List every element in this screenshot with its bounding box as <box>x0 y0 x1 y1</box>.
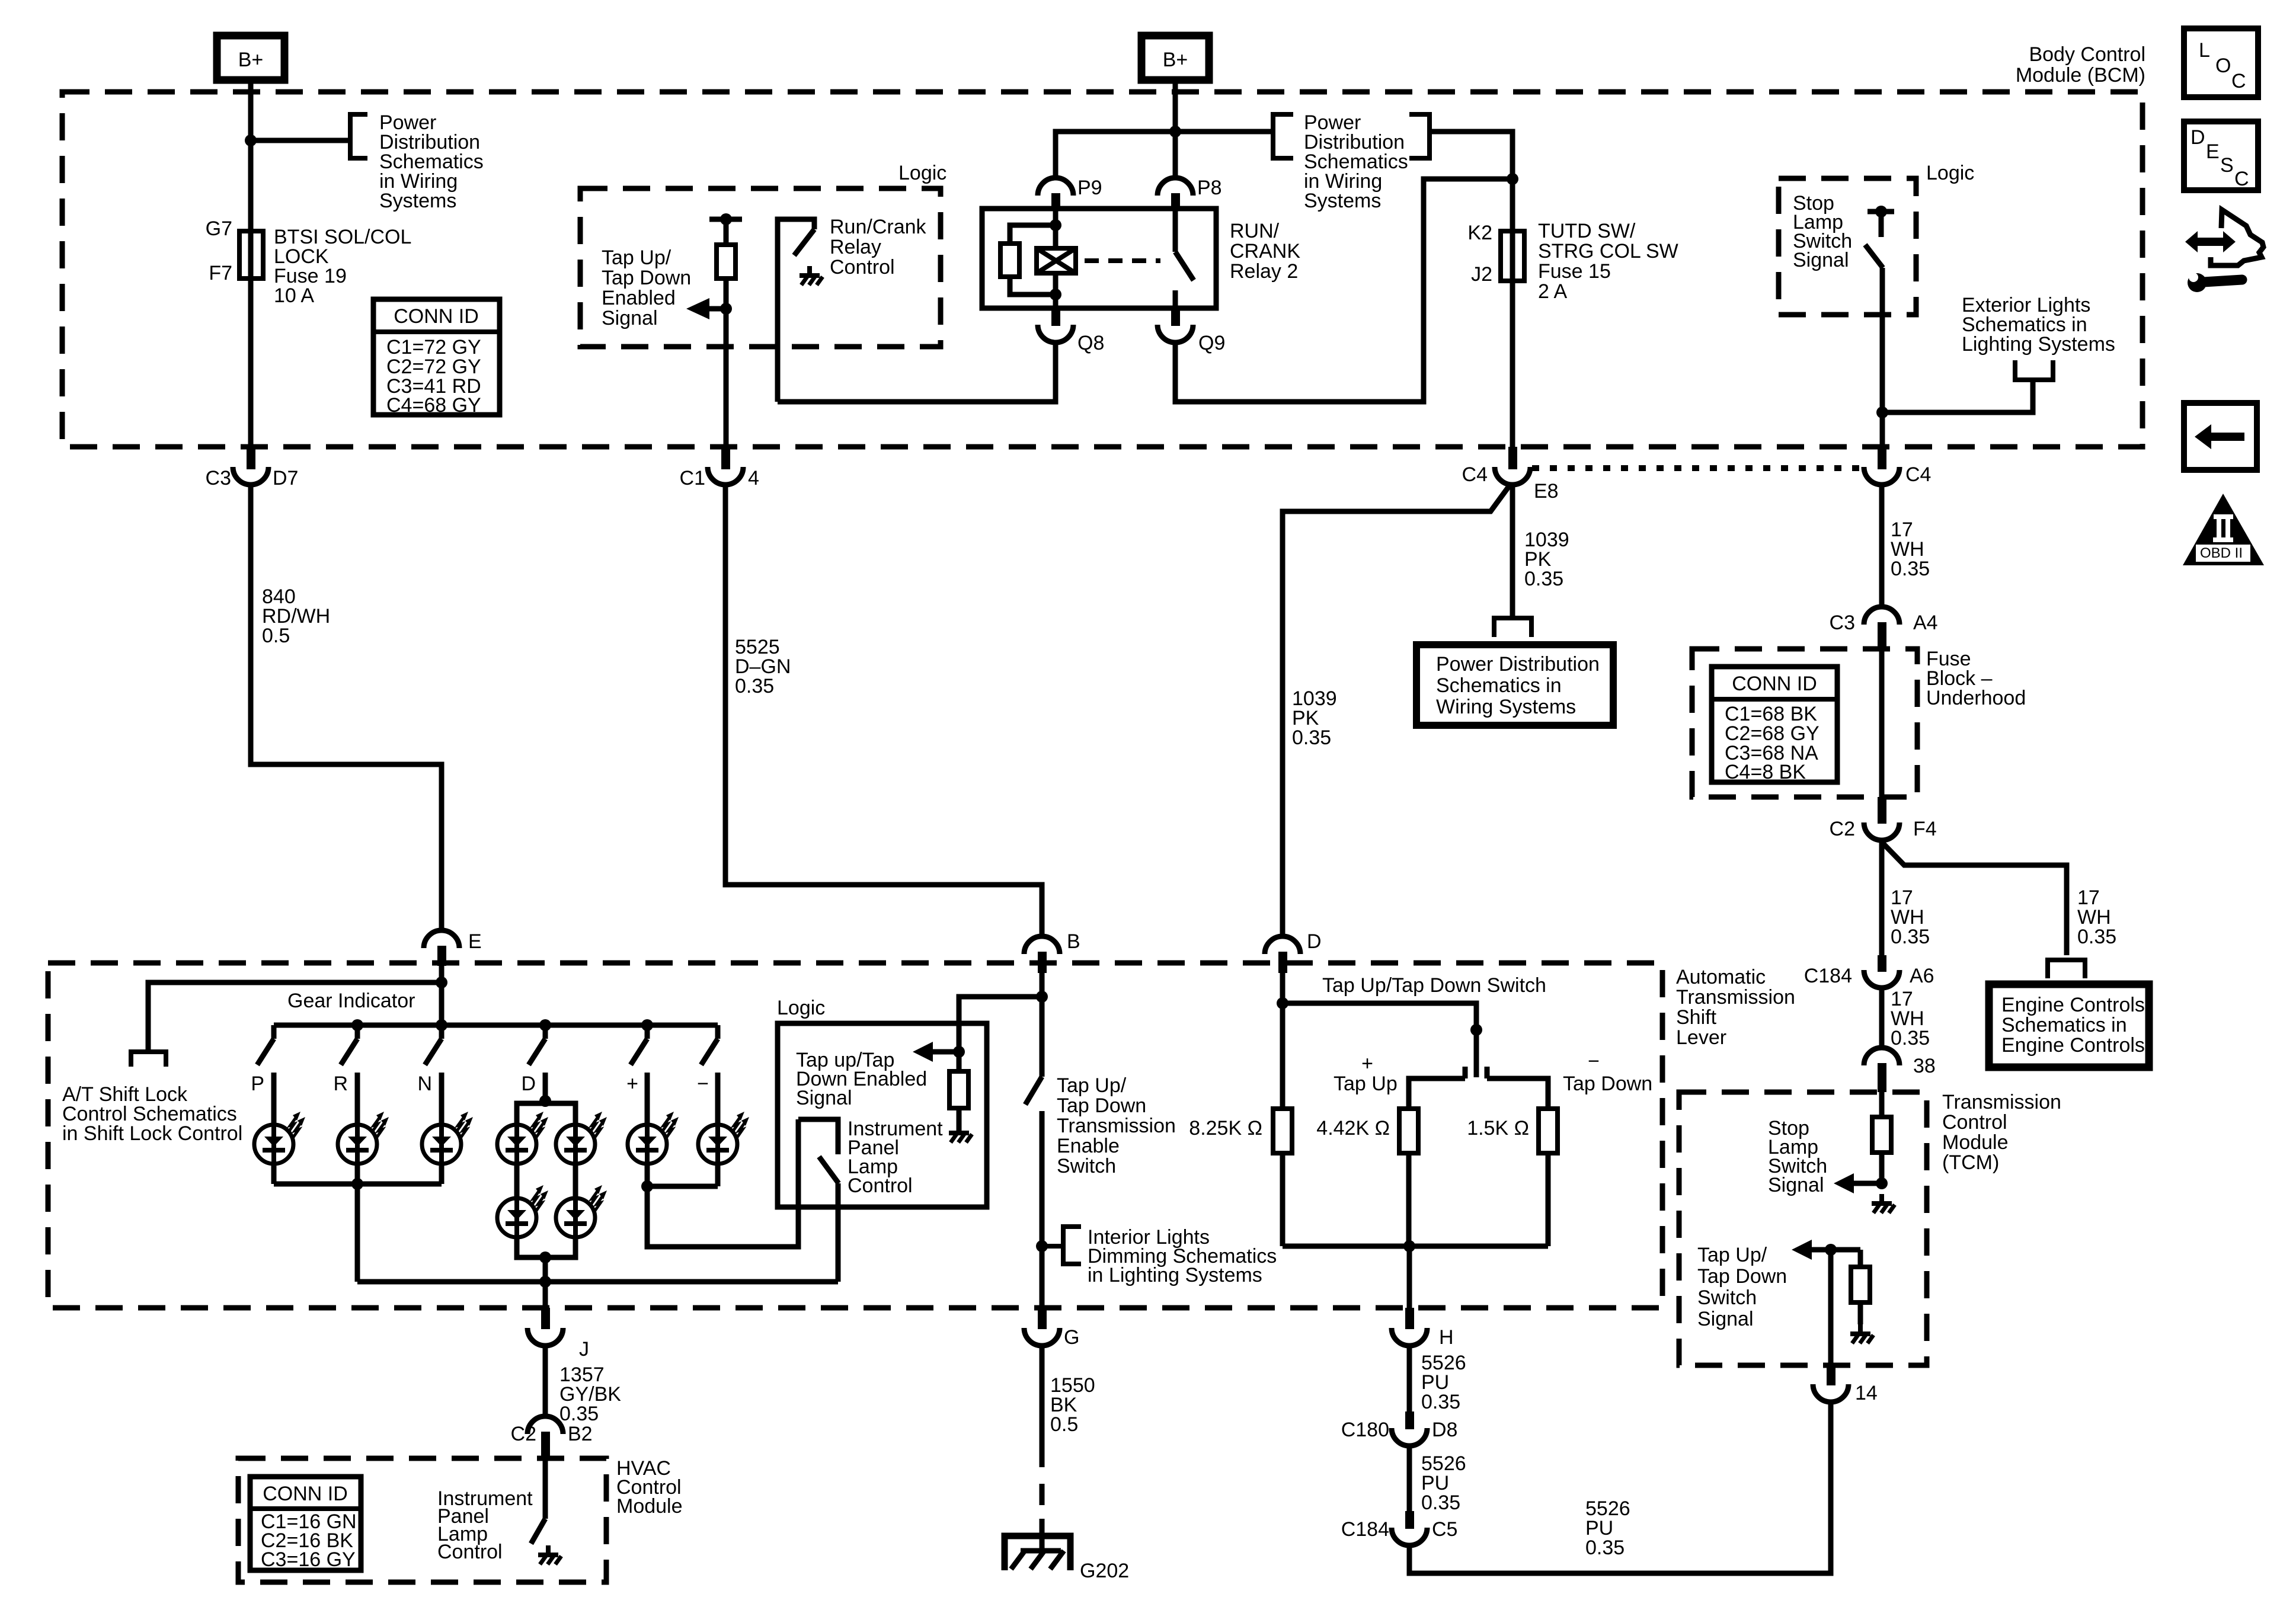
svg-text:−: − <box>1588 1050 1600 1073</box>
svg-text:Logic: Logic <box>777 997 825 1019</box>
resistor 4.42K <box>1316 1109 1418 1246</box>
svg-text:+: + <box>1361 1052 1373 1075</box>
svg-text:Enabled: Enabled <box>602 287 676 309</box>
LED D2 <box>556 1112 607 1164</box>
svg-text:B: B <box>1067 930 1080 953</box>
node stop lamp junction <box>1876 406 1888 418</box>
connector C3/A4 <box>1830 607 1938 649</box>
bracket power distribution 2 right <box>1409 114 1430 158</box>
wire split right 17 WH <box>1882 842 2116 955</box>
vehicle double-arrow icon <box>2185 210 2263 265</box>
svg-text:C2: C2 <box>1830 818 1855 840</box>
svg-text:Tap Up/Tap Down Switch: Tap Up/Tap Down Switch <box>1322 974 1546 997</box>
svg-text:Signal: Signal <box>796 1087 852 1109</box>
TCM tap signal resistor <box>1851 1250 1870 1324</box>
wire PRN to rail <box>355 1184 360 1282</box>
run/crank relay control switch <box>778 219 814 402</box>
svg-text:G202: G202 <box>1080 1560 1129 1582</box>
svg-text:Wiring Systems: Wiring Systems <box>1436 696 1576 718</box>
node logic2 junction <box>953 1046 965 1058</box>
wire split left 17 WH <box>1882 841 1930 955</box>
Logic box <box>778 1023 987 1207</box>
connector C180/D8 <box>1341 1411 1458 1446</box>
gear indicator supply rail <box>274 1023 718 1028</box>
svg-text:Tap Up/: Tap Up/ <box>1057 1074 1127 1097</box>
svg-text:B+: B+ <box>1163 49 1188 71</box>
svg-text:0.35: 0.35 <box>1891 1027 1930 1049</box>
svg-text:S: S <box>2220 154 2234 177</box>
resistor 1.5K <box>1467 1109 1558 1246</box>
connector Q8 <box>1038 308 1104 354</box>
svg-text:Relay: Relay <box>830 236 881 258</box>
svg-text:C3: C3 <box>206 467 231 489</box>
ground HVAC <box>538 1545 561 1564</box>
svg-text:C4: C4 <box>1462 463 1488 486</box>
connector C4/E8 <box>1462 447 1559 502</box>
svg-text:1.5K Ω: 1.5K Ω <box>1467 1117 1529 1140</box>
svg-text:C4: C4 <box>1905 463 1931 486</box>
svg-text:Signal: Signal <box>1697 1308 1754 1330</box>
relay actuation dashed line <box>1085 258 1160 263</box>
svg-text:Schematics in: Schematics in <box>1436 674 1562 697</box>
node D branch bottom <box>539 1251 551 1263</box>
wire bracket to fuse15 <box>1430 132 1512 179</box>
Logic dashed box stop lamp <box>1779 178 1916 315</box>
svg-text:A6: A6 <box>1910 965 1934 987</box>
svg-text:Signal: Signal <box>1793 249 1849 271</box>
rocker switch common <box>1283 1003 1482 1077</box>
svg-text:Engine Controls: Engine Controls <box>2001 1034 2145 1057</box>
LED N <box>422 1112 473 1164</box>
svg-text:Control: Control <box>437 1541 503 1563</box>
svg-text:Schematics in: Schematics in <box>2001 1014 2127 1036</box>
svg-text:Tap Down: Tap Down <box>1057 1094 1146 1117</box>
svg-text:0.35: 0.35 <box>1891 926 1930 948</box>
svg-text:(TCM): (TCM) <box>1942 1151 1999 1174</box>
switch D <box>521 1025 545 1101</box>
svg-text:CONN ID: CONN ID <box>1732 673 1817 695</box>
wire 5526 PU 2 <box>1409 1447 1466 1514</box>
svg-text:Run/Crank: Run/Crank <box>830 216 927 238</box>
svg-text:K2: K2 <box>1467 222 1492 244</box>
node E junction <box>436 977 447 988</box>
svg-text:−: − <box>697 1073 709 1095</box>
LED R <box>338 1112 389 1164</box>
svg-text:Module (BCM): Module (BCM) <box>2016 64 2145 87</box>
PRN cathode bar <box>274 1182 442 1187</box>
svg-text:D: D <box>1307 930 1322 953</box>
svg-text:0.5: 0.5 <box>1050 1413 1078 1436</box>
svg-text:Switch: Switch <box>1697 1286 1757 1309</box>
HVAC Control Module dashed box <box>238 1458 606 1582</box>
svg-text:C4=8 BK: C4=8 BK <box>1725 761 1806 783</box>
svg-text:Q9: Q9 <box>1198 332 1225 354</box>
svg-text:TUTD SW/: TUTD SW/ <box>1538 220 1636 242</box>
switch N <box>417 1025 442 1125</box>
wire plusminus to lamp control <box>647 1119 798 1247</box>
svg-text:Tap Down: Tap Down <box>1697 1265 1787 1288</box>
svg-text:C3=16 GY: C3=16 GY <box>261 1548 356 1571</box>
svg-text:Q8: Q8 <box>1077 332 1104 354</box>
switch plus <box>626 1025 647 1125</box>
svg-text:C4=68 GY: C4=68 GY <box>386 394 481 417</box>
svg-text:E8: E8 <box>1534 480 1559 502</box>
svg-text:C184: C184 <box>1804 965 1852 987</box>
LED P <box>254 1112 305 1164</box>
svg-text:Transmission: Transmission <box>1942 1091 2061 1113</box>
connector P9 <box>1038 177 1102 210</box>
svg-text:0.35: 0.35 <box>1421 1391 1460 1413</box>
wire B+1 down <box>248 80 254 231</box>
TCM stop lamp resistor <box>1872 1092 1891 1183</box>
svg-text:B+: B+ <box>238 49 264 71</box>
svg-text:Signal: Signal <box>602 307 658 329</box>
relay coil X symbol <box>1037 248 1076 273</box>
fuse 19 BTSI SOL/COL LOCK <box>206 217 412 447</box>
node junction B+1 <box>245 135 257 146</box>
svg-text:0.35: 0.35 <box>735 675 774 697</box>
svg-text:N: N <box>417 1073 432 1095</box>
wire to connector J <box>543 1282 548 1308</box>
wire E into box <box>439 966 445 1025</box>
resistor return rail <box>1283 1244 1548 1249</box>
LED D1 <box>497 1112 548 1164</box>
svg-text:Tap Up: Tap Up <box>1334 1073 1398 1095</box>
svg-text:H: H <box>1439 1326 1454 1349</box>
LED minus <box>698 1112 749 1164</box>
CONN ID table fuse block <box>1712 667 1837 783</box>
svg-text:0.35: 0.35 <box>2077 926 2116 948</box>
svg-text:P: P <box>251 1073 264 1095</box>
svg-text:C: C <box>2234 168 2249 190</box>
connector Q9 <box>1157 308 1225 354</box>
svg-text:D7: D7 <box>273 467 298 489</box>
connector C184/A6 <box>1804 955 1934 988</box>
wrench icon <box>2185 268 2242 292</box>
svg-text:Control: Control <box>1942 1111 2007 1134</box>
connector C1/4 <box>680 447 759 489</box>
svg-text:0.5: 0.5 <box>262 625 290 647</box>
wire to A/T shift lock <box>148 982 442 1052</box>
connector J <box>527 1308 589 1361</box>
svg-text:P9: P9 <box>1077 177 1102 199</box>
svg-text:8.25K Ω: 8.25K Ω <box>1189 1117 1262 1140</box>
svg-text:OBD II: OBD II <box>2200 545 2243 561</box>
DESC legend box <box>2184 121 2258 190</box>
svg-text:C3: C3 <box>1830 612 1855 634</box>
svg-text:RUN/: RUN/ <box>1230 220 1280 242</box>
tap enable switch blade <box>1025 1077 1042 1105</box>
lamp control switch <box>798 1119 839 1282</box>
svg-text:Tap Down: Tap Down <box>602 267 691 289</box>
wire through fuse block <box>1879 649 1885 797</box>
svg-text:in Shift Lock Control: in Shift Lock Control <box>62 1122 242 1145</box>
resistor logic1 <box>709 213 742 447</box>
svg-text:2 A: 2 A <box>1538 280 1567 303</box>
svg-text:G7: G7 <box>206 217 232 240</box>
svg-text:STRG COL SW: STRG COL SW <box>1538 240 1678 263</box>
connector C2/F4 <box>1830 797 1937 840</box>
svg-text:Transmission: Transmission <box>1057 1115 1176 1137</box>
wire B+2 down <box>1173 80 1178 178</box>
wire to power dist bracket 2 <box>1175 129 1273 135</box>
svg-text:C2: C2 <box>511 1423 536 1445</box>
wire to connector H <box>1407 1246 1412 1308</box>
wire D into box <box>1280 966 1285 1109</box>
svg-text:Switch: Switch <box>1057 1155 1116 1177</box>
svg-text:Logic: Logic <box>898 162 946 184</box>
tap signal arrow TCM <box>1792 1240 1860 1260</box>
wire Q9 to fuse feed <box>1175 179 1512 402</box>
ground run/crank <box>800 266 823 285</box>
Automatic Transmission Shift Lever dashed box <box>48 963 1662 1308</box>
Engine Controls reference box <box>1989 984 2149 1067</box>
svg-text:Control: Control <box>830 256 895 279</box>
svg-text:Module: Module <box>616 1495 683 1518</box>
connector C184/C5 <box>1341 1511 1458 1545</box>
wire 1550 BK <box>1042 1347 1095 1553</box>
svg-text:O: O <box>2215 55 2231 77</box>
svg-text:0.35: 0.35 <box>1891 558 1930 580</box>
relay switch <box>1175 210 1194 307</box>
resistor logic2 <box>949 1052 968 1133</box>
svg-text:4.42K Ω: 4.42K Ω <box>1316 1117 1390 1140</box>
ground TCM tap signal <box>1850 1324 1873 1343</box>
svg-text:CRANK: CRANK <box>1230 240 1300 263</box>
svg-text:Logic: Logic <box>1926 162 1974 184</box>
svg-text:J2: J2 <box>1471 263 1492 286</box>
svg-text:R: R <box>333 1073 348 1095</box>
wire B into box <box>1040 966 1045 1077</box>
OBD II triangle <box>2183 494 2264 565</box>
svg-text:Gear Indicator: Gear Indicator <box>287 990 415 1012</box>
Power Distribution reference box <box>1416 645 1613 725</box>
wire 840 RD/WH 0.5 <box>251 486 442 929</box>
connector C2/B2 <box>511 1416 593 1458</box>
bracket power distribution 1 <box>350 114 367 158</box>
resistor 8.25K <box>1189 1109 1292 1246</box>
svg-text:A4: A4 <box>1913 612 1938 634</box>
svg-text:Tap Up/: Tap Up/ <box>602 247 671 269</box>
svg-text:D: D <box>2191 126 2205 149</box>
ground logic2 <box>949 1124 972 1142</box>
connector H <box>1392 1308 1454 1349</box>
HVAC lamp switch <box>531 1458 545 1544</box>
ground G202 <box>1005 1536 1129 1582</box>
wire 1039 PK to D <box>1283 485 1510 935</box>
CONN ID table HVAC <box>250 1477 361 1571</box>
svg-text:L: L <box>2199 39 2210 62</box>
wire B to logic2 <box>959 997 1042 1052</box>
D parallel LED network <box>517 1103 575 1257</box>
arrow tap enable <box>686 298 726 319</box>
Fuse Block Underhood dashed box <box>1692 649 1917 797</box>
svg-text:P8: P8 <box>1197 177 1222 199</box>
svg-text:C: C <box>2231 70 2246 92</box>
battery B+ terminal 2 <box>1141 36 1209 80</box>
Logic dashed box <box>580 188 941 347</box>
svg-text:E: E <box>468 930 482 953</box>
svg-text:Tap Up/: Tap Up/ <box>1697 1244 1767 1266</box>
svg-text:Module: Module <box>1942 1131 2009 1154</box>
arrow stop lamp signal <box>1834 1173 1882 1193</box>
wire 1039 PK to power dist <box>1512 486 1569 617</box>
Transmission Control Module dashed box <box>1679 1092 1927 1365</box>
relay RUN/CRANK Relay 2 box <box>982 209 1216 308</box>
bracket power dist mid <box>1494 618 1531 637</box>
bracket A/T shift lock <box>131 1052 166 1067</box>
svg-text:Lever: Lever <box>1676 1026 1726 1049</box>
connector P8 <box>1157 177 1222 210</box>
LOC legend box <box>2184 28 2258 97</box>
svg-text:G: G <box>1064 1326 1079 1349</box>
svg-text:Signal: Signal <box>1768 1174 1824 1196</box>
bracket exterior lights <box>2015 360 2053 380</box>
svg-text:10 A: 10 A <box>274 284 314 307</box>
svg-text:C5: C5 <box>1432 1518 1457 1541</box>
CONN ID table 1 <box>373 299 500 417</box>
wire Q8 to run/crank switch <box>778 344 1056 402</box>
stop lamp switch <box>1865 206 1894 448</box>
svg-text:Body Control: Body Control <box>2029 43 2145 66</box>
connector G <box>1024 1308 1079 1349</box>
wire 17 WH to fuse block <box>1882 486 1930 607</box>
svg-text:CONN ID: CONN ID <box>394 305 479 328</box>
svg-text:Underhood: Underhood <box>1926 687 2026 709</box>
svg-text:F7: F7 <box>209 262 232 284</box>
Body Control Module (BCM) dashed box <box>62 92 2142 447</box>
svg-text:Power Distribution: Power Distribution <box>1436 653 1600 676</box>
relay coil circuit <box>1000 210 1061 307</box>
bracket power distribution 2 left <box>1273 114 1293 158</box>
switch R <box>333 1025 357 1125</box>
battery B+ terminal 1 <box>217 36 284 80</box>
node logic1 junction <box>720 303 732 315</box>
svg-text:Shift: Shift <box>1676 1006 1717 1029</box>
wire D branch to rail <box>543 1257 548 1282</box>
svg-text:0.35: 0.35 <box>1585 1537 1625 1559</box>
connector E <box>424 930 482 966</box>
svg-text:Fuse 15: Fuse 15 <box>1538 260 1611 283</box>
node D branch top <box>539 1095 551 1107</box>
wire to power distribution bracket <box>251 138 350 143</box>
svg-text:0.35: 0.35 <box>559 1403 599 1425</box>
wire to exterior lights bracket <box>1882 380 2033 412</box>
connector D <box>1265 930 1322 973</box>
wire 1357 GY/BK <box>545 1347 621 1425</box>
svg-text:E: E <box>2206 140 2220 163</box>
svg-text:0.35: 0.35 <box>1292 726 1331 749</box>
svg-text:CONN ID: CONN ID <box>263 1483 348 1505</box>
switch P <box>251 1025 274 1125</box>
dotted connector line <box>1532 465 1867 471</box>
LED plus <box>628 1112 679 1164</box>
wire 5526 PU 1 <box>1409 1347 1466 1413</box>
svg-text:Enable: Enable <box>1057 1135 1120 1157</box>
svg-text:Transmission: Transmission <box>1676 986 1795 1009</box>
back arrow box <box>2184 403 2257 470</box>
bracket interior lights <box>1042 1227 1081 1264</box>
switch minus <box>697 1025 718 1125</box>
connector 14 <box>1813 1363 1878 1404</box>
svg-text:C1: C1 <box>680 467 705 489</box>
wire 17 WH to TCM <box>1882 988 1930 1049</box>
LED D4 <box>556 1185 607 1237</box>
svg-text:Relay 2: Relay 2 <box>1230 260 1298 283</box>
rocker contact tap down <box>1487 1067 1548 1109</box>
svg-text:Lighting Systems: Lighting Systems <box>1962 333 2115 356</box>
svg-text:Tap Down: Tap Down <box>1563 1073 1652 1095</box>
wire to connector 14 <box>1828 1250 1834 1363</box>
LED D3 <box>497 1185 548 1237</box>
svg-text:Systems: Systems <box>1304 190 1381 212</box>
svg-text:D: D <box>521 1073 536 1095</box>
svg-text:Engine Controls: Engine Controls <box>2001 994 2145 1016</box>
svg-text:C184: C184 <box>1341 1518 1389 1541</box>
connector C4 right <box>1864 448 1931 486</box>
wire 5525 D-GN <box>725 486 1042 935</box>
connector C3/D7 <box>206 447 299 489</box>
svg-text:C180: C180 <box>1341 1419 1389 1441</box>
ground TCM stop lamp <box>1872 1194 1895 1213</box>
svg-text:F4: F4 <box>1913 818 1937 840</box>
svg-text:38: 38 <box>1913 1055 1936 1077</box>
plus minus cathode bar <box>647 1184 718 1189</box>
svg-text:+: + <box>626 1073 638 1095</box>
svg-text:in Lighting Systems: in Lighting Systems <box>1088 1264 1262 1286</box>
svg-text:0.35: 0.35 <box>1524 568 1563 590</box>
connector 38 <box>1864 1048 1936 1092</box>
rocker contact tap up <box>1409 1067 1465 1109</box>
svg-text:Automatic: Automatic <box>1676 966 1766 988</box>
svg-text:14: 14 <box>1855 1382 1878 1404</box>
bracket engine controls <box>2048 960 2085 978</box>
svg-text:0.35: 0.35 <box>1421 1491 1460 1514</box>
wire enable switch to G <box>1040 1111 1045 1308</box>
connector B <box>1024 930 1080 973</box>
fuse 15 TUTD SW <box>1467 179 1678 447</box>
tap enable output arrow <box>913 1042 959 1062</box>
svg-text:B2: B2 <box>568 1423 593 1445</box>
svg-text:4: 4 <box>748 467 759 489</box>
svg-text:Systems: Systems <box>379 190 456 212</box>
svg-text:D8: D8 <box>1432 1419 1457 1441</box>
LED return rail <box>357 1279 838 1285</box>
svg-text:Control: Control <box>848 1174 913 1197</box>
svg-text:J: J <box>579 1338 589 1361</box>
wire 5526 PU to TCM 14 <box>1409 1403 1831 1573</box>
wire to P9 <box>1056 132 1175 178</box>
